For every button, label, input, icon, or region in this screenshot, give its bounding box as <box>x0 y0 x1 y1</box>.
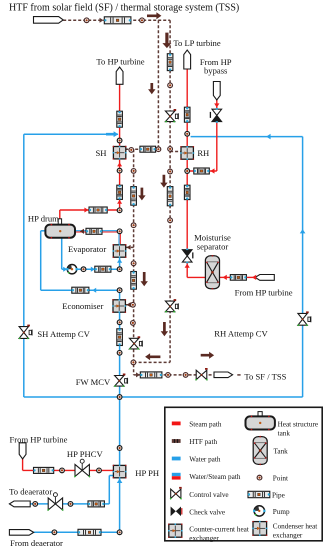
svg-text:SH Attemp CV: SH Attemp CV <box>37 329 90 339</box>
svg-text:Water/Steam path: Water/Steam path <box>189 473 241 481</box>
svg-text:SH: SH <box>96 148 107 158</box>
svg-text:FW MCV: FW MCV <box>76 377 111 387</box>
svg-text:Pipe: Pipe <box>272 491 285 499</box>
svg-text:Pump: Pump <box>273 508 290 516</box>
svg-text:Point: Point <box>273 475 288 483</box>
svg-text:Tank: Tank <box>274 447 289 455</box>
svg-text:separator: separator <box>197 242 229 252</box>
svg-text:To deaerator: To deaerator <box>9 487 52 497</box>
svg-text:From HP turbine: From HP turbine <box>10 434 68 444</box>
svg-text:To HP turbine: To HP turbine <box>96 56 144 66</box>
svg-text:HP drum: HP drum <box>28 214 59 224</box>
svg-text:RH: RH <box>197 148 209 158</box>
svg-text:To SF / TSS: To SF / TSS <box>244 372 286 382</box>
svg-text:exchanger: exchanger <box>273 532 303 540</box>
svg-text:Steam path: Steam path <box>189 420 222 428</box>
svg-text:HP PH: HP PH <box>135 468 159 478</box>
svg-text:Evaporator: Evaporator <box>68 244 106 254</box>
svg-text:Check valve: Check valve <box>189 508 225 516</box>
svg-text:To LP turbine: To LP turbine <box>173 38 220 48</box>
svg-text:tank: tank <box>278 430 291 438</box>
svg-text:Economiser: Economiser <box>62 301 103 311</box>
svg-text:From HP turbine: From HP turbine <box>235 288 293 298</box>
svg-text:Heat structure: Heat structure <box>278 421 319 429</box>
svg-text:Control valve: Control valve <box>189 491 228 499</box>
svg-text:exchanger: exchanger <box>189 534 219 542</box>
svg-text:RH Attemp CV: RH Attemp CV <box>214 328 268 338</box>
svg-text:Water path: Water path <box>189 456 221 464</box>
svg-text:HP PHCV: HP PHCV <box>67 449 104 459</box>
svg-text:HTF from solar field (SF) / th: HTF from solar field (SF) / thermal stor… <box>9 3 239 14</box>
svg-text:Condenser heat: Condenser heat <box>273 523 318 531</box>
svg-text:HTF path: HTF path <box>189 438 217 446</box>
svg-text:Counter-current heat: Counter-current heat <box>189 526 249 534</box>
svg-text:bypass: bypass <box>204 65 228 75</box>
svg-text:From deaerator: From deaerator <box>10 538 63 548</box>
